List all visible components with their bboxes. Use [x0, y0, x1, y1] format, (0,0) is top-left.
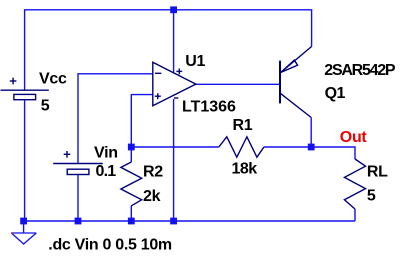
svg-text:RL: RL: [367, 163, 388, 180]
svg-text:R1: R1: [233, 117, 253, 134]
svg-text:0.1: 0.1: [96, 163, 117, 180]
svg-text:18k: 18k: [232, 160, 258, 177]
svg-text:Q1: Q1: [325, 85, 346, 102]
svg-text:Vcc: Vcc: [39, 70, 67, 87]
svg-text:Vin: Vin: [94, 145, 118, 162]
svg-text:5: 5: [367, 187, 376, 204]
svg-text:U1: U1: [185, 53, 205, 70]
svg-text:R2: R2: [143, 163, 163, 180]
svg-text:Out: Out: [340, 129, 368, 146]
svg-text:LT1366: LT1366: [182, 99, 236, 116]
svg-text:.dc Vin 0 0.5 10m: .dc Vin 0 0.5 10m: [48, 237, 172, 254]
svg-text:5: 5: [41, 98, 50, 115]
svg-text:2SAR542P: 2SAR542P: [324, 62, 396, 79]
svg-text:2k: 2k: [143, 188, 161, 205]
